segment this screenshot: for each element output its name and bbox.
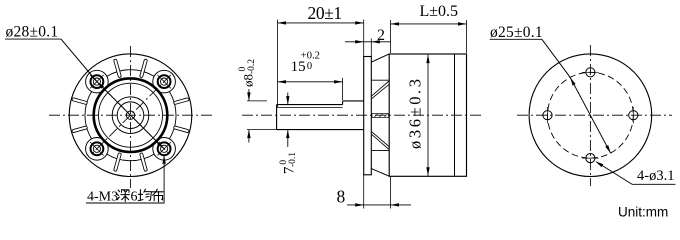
fin at 10deg: [173, 126, 189, 133]
shaft tip edge: [276, 105, 278, 130]
outer rear circle: [529, 54, 652, 177]
front boss circle thick: [94, 78, 168, 152]
svg-text:-0.2: -0.2: [247, 59, 257, 74]
shaft flat line: [277, 104, 343, 106]
leader 4-d3.1: [597, 162, 633, 184]
shaft flat lower edge line: [277, 107, 343, 109]
svg-text:20±1: 20±1: [308, 3, 342, 23]
fin ring inner arc right: [170, 92, 177, 139]
ext line body front top: [390, 20, 392, 53]
fin ring inner arc left: [85, 92, 92, 139]
hole tick UL: [90, 75, 103, 88]
body rect: [389, 54, 466, 176]
arrowheads left view: [97, 82, 166, 164]
label 7 rotated: [279, 152, 298, 174]
d8 dim line upper: [248, 89, 250, 101]
hole tick LL: [90, 142, 103, 155]
cap horizontal upper: [371, 79, 389, 81]
d8 dim line lower: [248, 130, 250, 143]
label d8 rotated: [238, 59, 257, 87]
svg-text:0: 0: [307, 61, 312, 72]
svg-text:ø8: ø8: [241, 74, 256, 87]
ear boss LR: [153, 138, 176, 161]
flange rect: [364, 57, 372, 175]
cap wedge lower: [372, 132, 389, 150]
bolt circle dashed: [548, 72, 634, 158]
svg-text:2: 2: [377, 27, 385, 44]
M3 hole LR: [158, 142, 171, 155]
svg-text:+0.2: +0.2: [301, 51, 320, 62]
inner boss circle: [99, 83, 163, 147]
M3 hole LL: [91, 142, 104, 155]
dim line 8: [347, 204, 411, 206]
ext line body rear top: [466, 20, 468, 53]
fin at 80deg: [140, 153, 148, 172]
hole tick UR: [157, 75, 170, 88]
d8 extension bottom: [247, 129, 277, 131]
CJK bu: [152, 189, 164, 202]
horizontal center line (middle view): [242, 114, 484, 116]
fin at 100deg: [114, 153, 122, 172]
fin ring inner arc top: [107, 70, 154, 77]
label underline d28: [5, 38, 61, 40]
vertical center line (right view): [589, 45, 591, 186]
fin at 190deg: [72, 98, 88, 105]
diagonal center line UR-LL: [90, 75, 171, 156]
horizontal center line (left view): [49, 114, 213, 116]
fin at 350deg: [173, 98, 189, 105]
hole right: [629, 111, 638, 120]
label underline 4-M3: [86, 202, 165, 204]
dim line bolt circle dia 28: [61, 39, 164, 149]
svg-text:-0.1: -0.1: [288, 152, 298, 167]
leader 4-M3: [163, 156, 165, 203]
dim line 7 lower: [287, 130, 289, 147]
ext line flange back: [370, 39, 372, 57]
M3 hole UL: [91, 75, 104, 88]
svg-text:L±0.5: L±0.5: [420, 3, 459, 20]
cap slot hatched: [372, 114, 389, 118]
diagonal center line UL-LR: [90, 75, 171, 156]
ear boss UL: [86, 70, 109, 93]
CJK shen: [117, 190, 130, 202]
dim line 20: [278, 22, 364, 24]
vertical center line (left view): [130, 46, 132, 188]
ear boss UR: [153, 70, 176, 93]
dim line d25: [542, 39, 611, 153]
fin at 260deg: [114, 59, 122, 78]
arrowheads middle view: [247, 21, 466, 206]
shaft top full dia: [343, 100, 364, 102]
svg-text:4-ø3.1: 4-ø3.1: [637, 168, 674, 184]
dim line L: [391, 23, 467, 25]
svg-text:8: 8: [337, 187, 346, 207]
dim line 2: [345, 41, 391, 43]
fin at 170deg: [72, 126, 88, 133]
label underline d25: [490, 38, 542, 40]
outer body circle: [69, 54, 192, 177]
ext line flat end: [342, 78, 344, 100]
fin at 280deg: [140, 59, 148, 78]
ext line flange front upper: [363, 20, 365, 57]
cap bottom edge: [371, 169, 389, 177]
cap wedge upper: [372, 81, 389, 99]
shaft circle: [117, 102, 144, 129]
dim line 15: [278, 81, 343, 83]
shaft bottom: [277, 129, 364, 131]
ext line shaft tip: [277, 20, 279, 108]
d8 extension top: [247, 100, 267, 102]
label d36 rotated: [406, 76, 425, 149]
cap horizontal lower: [371, 149, 389, 151]
svg-text:Unit:mm: Unit:mm: [618, 205, 668, 220]
center hole circle: [126, 111, 134, 119]
hole left: [543, 111, 552, 120]
ear boss LL: [86, 138, 109, 161]
shaft step: [342, 101, 344, 105]
horizontal center line (right view): [517, 114, 672, 116]
dim line 7 upper: [287, 93, 289, 105]
ext line flange front lower: [363, 175, 365, 209]
arrowheads right view: [570, 77, 611, 167]
svg-text:ø36±0.3: ø36±0.3: [406, 76, 425, 149]
M3 hole UR: [158, 75, 171, 88]
label underline 4-d3.1: [632, 183, 676, 185]
svg-text:4-M3: 4-M3: [87, 190, 118, 205]
hole top: [586, 68, 595, 77]
CJK jun: [138, 189, 151, 200]
fin ring inner arc bottom: [107, 154, 154, 161]
svg-text:ø28±0.1: ø28±0.1: [6, 23, 59, 40]
cap top edge: [371, 54, 389, 62]
hole tick LR: [157, 142, 170, 155]
svg-text:ø25±0.1: ø25±0.1: [490, 24, 543, 41]
bearing boss circle: [112, 97, 149, 134]
body rear cap line: [454, 54, 456, 176]
dim line d36: [427, 55, 429, 176]
svg-text:6: 6: [131, 190, 138, 205]
ext line body front bottom: [390, 176, 392, 208]
hole bottom: [586, 154, 595, 163]
